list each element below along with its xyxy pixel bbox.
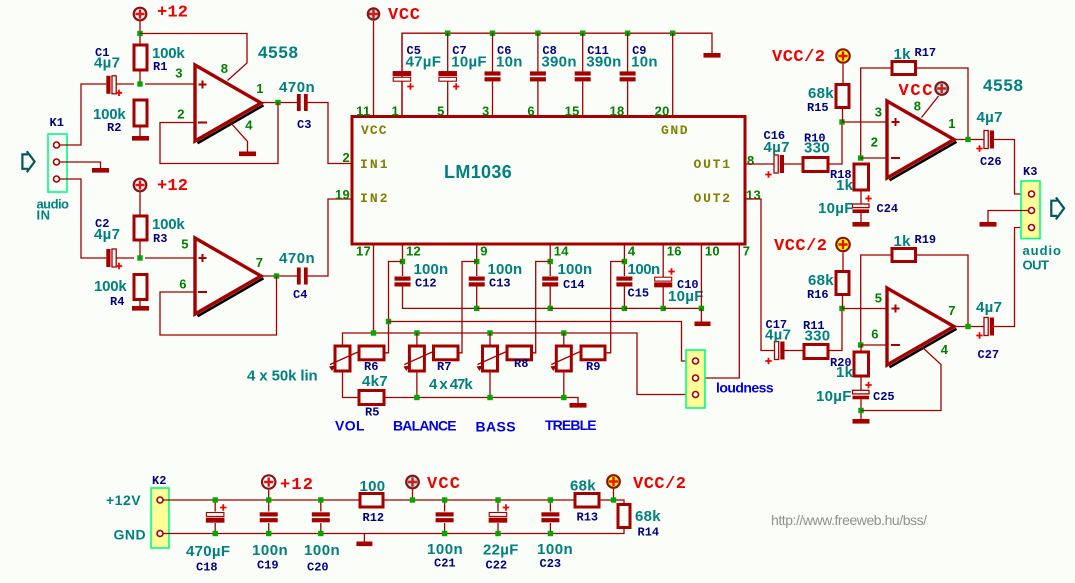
wire pin9 to R7	[458, 262, 477, 353]
svg-text:C26: C26	[980, 155, 1002, 169]
wire C8 to IC	[537, 81, 539, 116]
svg-text:470n: 470n	[279, 79, 315, 96]
svg-text:C24: C24	[877, 202, 899, 216]
wire C22 bottom	[497, 523, 499, 534]
wire R11 to +input node ch2	[828, 309, 842, 351]
svg-text:100n: 100n	[252, 542, 288, 559]
wire bus to C8	[537, 33, 539, 71]
capacitor C13	[469, 277, 485, 287]
label audio IN	[37, 197, 70, 223]
IC U2 LM1036 body	[352, 117, 745, 245]
wire rail1 C10-pin10	[663, 307, 701, 309]
node junction C20 rail bottom	[318, 531, 323, 536]
node junction out U3B	[965, 324, 970, 329]
wire C19 top	[268, 500, 270, 512]
wire top rail R13-R14	[599, 500, 624, 505]
label C22 plus	[503, 504, 509, 510]
svg-text:6: 6	[179, 277, 187, 292]
wire IC pin13 OUT2 to C17	[745, 199, 775, 351]
wire C1 to node	[116, 83, 134, 85]
wire C2 to node	[116, 257, 134, 259]
capacitor C12	[395, 277, 411, 287]
svg-text:4µ7: 4µ7	[94, 226, 120, 243]
wire IC pin14 branch	[549, 244, 551, 276]
wire K1-3 to C2	[60, 179, 107, 258]
resistor R4	[134, 275, 147, 300]
svg-text:10µF: 10µF	[816, 388, 852, 405]
node junction top bus	[445, 31, 450, 36]
wire R2 to ground	[139, 126, 141, 136]
power VCC/2 channel2	[836, 238, 849, 251]
op-amp U1B	[195, 238, 264, 316]
svg-text:C20: C20	[307, 561, 329, 575]
wire +12 stub bottom	[268, 490, 270, 500]
node junction C13 rail1	[474, 306, 479, 311]
svg-text:47µF: 47µF	[406, 54, 442, 71]
wire rail ground stub	[363, 534, 365, 542]
svg-text:BALANCE: BALANCE	[393, 418, 457, 434]
capacitor C5	[393, 72, 411, 82]
svg-text:7: 7	[743, 244, 751, 259]
svg-text:R12: R12	[363, 511, 385, 525]
svg-text:R3: R3	[153, 232, 167, 246]
wire bus to C7	[447, 33, 449, 71]
svg-text:VCC/2: VCC/2	[772, 48, 825, 67]
wire rail2 to loudness top	[389, 322, 692, 362]
svg-text:+12V: +12V	[106, 492, 141, 508]
svg-text:IN1: IN1	[360, 157, 388, 172]
wire C4 to IC pin19	[308, 199, 353, 276]
svg-text:5: 5	[181, 237, 189, 252]
node junction C1/R1/R2/opamp	[137, 81, 142, 86]
node junction pot rail	[371, 330, 376, 335]
wire C23 bottom	[549, 523, 551, 534]
svg-text:470n: 470n	[279, 250, 315, 267]
node junction pot rail	[561, 330, 566, 335]
capacitor C6	[485, 71, 501, 81]
svg-text:19: 19	[335, 187, 350, 202]
capacitor C11	[575, 71, 591, 81]
svg-text:4: 4	[628, 244, 636, 259]
opamp U1B minus sign	[198, 291, 207, 293]
capacitor C22	[489, 513, 507, 523]
wire R10 to +input node	[828, 122, 842, 164]
ground below C24	[853, 222, 870, 227]
wire IC pin10 to rail1	[700, 244, 702, 308]
svg-text:4k7: 4k7	[362, 373, 388, 390]
node junction C20 rail top	[318, 497, 323, 502]
wire U3B output to C27	[954, 326, 984, 328]
svg-text:4: 4	[941, 342, 949, 357]
opamp U1A minus sign	[198, 122, 207, 124]
node junction balance bottom	[414, 395, 419, 400]
svg-text:3: 3	[875, 105, 883, 120]
svg-text:TREBLE: TREBLE	[545, 417, 597, 433]
svg-text:VCC: VCC	[427, 475, 460, 494]
wire BASS pot top	[489, 333, 491, 346]
svg-text:11: 11	[356, 104, 370, 119]
capacitor C3	[297, 94, 308, 111]
capacitor C14	[542, 277, 558, 287]
wire K1-2 to ground	[60, 162, 101, 168]
wire node to opamp+	[145, 83, 195, 85]
svg-text:100n: 100n	[304, 542, 340, 559]
capacitor C23	[541, 512, 559, 522]
node junction rail2 loudness	[386, 319, 391, 324]
ground pin10	[695, 322, 711, 327]
svg-text:100n: 100n	[488, 261, 523, 278]
node junction C15 rail1	[622, 306, 627, 311]
svg-text:10: 10	[705, 244, 720, 259]
connector K3	[1021, 181, 1040, 239]
svg-text:100n: 100n	[537, 541, 573, 558]
svg-text:VCC: VCC	[361, 123, 387, 138]
wire pot top rail	[343, 333, 692, 395]
power +12 bottom	[262, 475, 275, 488]
wire rail1 C15-C10	[624, 307, 663, 309]
label C17 plus	[765, 358, 771, 364]
wire C27 to K3-3	[994, 228, 1029, 327]
opamp U1B plus sign	[199, 254, 207, 262]
wire C5 to IC	[401, 81, 403, 116]
wire C20 bottom	[320, 523, 322, 534]
opamp U3B plus sign	[892, 305, 900, 313]
ground below R4	[132, 306, 149, 311]
wire opamp pin4 to ground	[230, 122, 248, 152]
svg-text:VCC: VCC	[899, 82, 933, 101]
svg-text:GND: GND	[114, 527, 147, 543]
opamp U3B minus sign	[891, 344, 900, 346]
svg-text:10µF: 10µF	[451, 54, 487, 71]
node junction C19 rail top	[266, 497, 271, 502]
svg-text:K3: K3	[1023, 165, 1037, 179]
potentiometer R9 TREBLE	[550, 346, 580, 371]
capacitor C1	[106, 76, 116, 94]
pin K3-2	[1029, 208, 1035, 214]
svg-text:12: 12	[406, 244, 421, 259]
svg-text:4558: 4558	[258, 43, 299, 62]
wire +12 to R1	[139, 21, 141, 45]
wire IC pin7 to loudness	[700, 244, 740, 378]
label C26 plus	[976, 145, 982, 151]
power VCC bottom	[406, 476, 419, 489]
svg-text:C25: C25	[873, 390, 895, 404]
svg-text:4: 4	[245, 118, 253, 133]
ground opamp U1A pin4	[239, 152, 256, 157]
wire bus to C11	[582, 33, 584, 71]
capacitor C10	[655, 277, 672, 287]
svg-text:LM1036: LM1036	[444, 162, 513, 182]
node junction minus U3B	[858, 342, 863, 347]
resistor R13	[575, 494, 599, 508]
node junction pin14 branch	[548, 259, 553, 264]
svg-text:100k: 100k	[94, 278, 127, 295]
wire IC pin16 to C10	[662, 244, 664, 277]
svg-text:1k: 1k	[836, 177, 854, 194]
node junction C18 rail bottom	[213, 531, 218, 536]
resistor R5	[359, 391, 384, 405]
opamp U3A plus sign	[892, 118, 900, 126]
wire K3-2 to ground	[988, 211, 1029, 223]
resistor R10	[803, 158, 828, 172]
node junction pin9 branch	[474, 259, 479, 264]
wire R20 to C25	[860, 376, 862, 390]
resistor R16	[836, 272, 849, 295]
connector loudness	[686, 350, 705, 408]
svg-text:100n: 100n	[427, 541, 463, 558]
svg-text:4µ7: 4µ7	[94, 55, 120, 72]
svg-text:audio: audio	[1023, 243, 1062, 258]
wire IC pin4 branch	[623, 244, 625, 276]
pin K1-2	[54, 159, 60, 165]
svg-text:1k: 1k	[894, 233, 912, 250]
capacitor C15	[616, 277, 632, 287]
svg-text:10n: 10n	[496, 54, 523, 71]
wire IC pin8 OUT1 to C16	[745, 163, 774, 165]
node junction top bus	[535, 31, 540, 36]
node junction pot rail	[487, 330, 492, 335]
opamp U3A minus sign	[891, 157, 900, 159]
wire rail1 C14-C15	[550, 307, 624, 309]
wire GND bottom rail	[163, 528, 624, 534]
svg-text:1: 1	[256, 81, 264, 96]
node junction C23 rail bottom	[548, 531, 553, 536]
wire feedback right U3A	[916, 68, 969, 140]
wire opamp out to C3	[261, 102, 297, 104]
wire VOL pot bottom to R5	[343, 371, 360, 398]
node junction pin10 rail1	[699, 306, 704, 311]
svg-text:15: 15	[565, 104, 580, 119]
svg-text:R4: R4	[110, 295, 124, 309]
svg-text:R14: R14	[638, 526, 660, 540]
label C7 plus	[453, 83, 459, 89]
svg-text:14: 14	[554, 244, 570, 259]
svg-text:VCC: VCC	[388, 6, 420, 25]
capacitor C18	[206, 513, 224, 523]
wire TREBLE pot top	[563, 333, 565, 346]
power VCC/2 bottom	[607, 475, 620, 488]
wire C6 to IC	[492, 81, 494, 116]
wire opamp out to C4	[261, 275, 297, 277]
node junction treble bottom	[561, 395, 566, 400]
svg-text:R5: R5	[365, 406, 379, 420]
wire pin20 to bus	[672, 33, 674, 116]
resistor R14	[618, 505, 630, 528]
wire C18 top	[214, 500, 216, 512]
wire C10 to rail1	[662, 287, 664, 308]
svg-text:C18: C18	[196, 561, 218, 575]
svg-text:VCC/2: VCC/2	[633, 475, 686, 494]
wire C12 to rail1	[403, 287, 477, 309]
svg-text:C21: C21	[434, 557, 456, 571]
wire R15 to node	[842, 108, 844, 123]
capacitor C9	[620, 71, 636, 81]
arrow audio out	[1051, 197, 1064, 219]
svg-text:68k: 68k	[635, 508, 661, 525]
wire +12 top rail	[163, 499, 360, 501]
label C16 plus	[765, 171, 771, 177]
connector K1	[48, 134, 67, 192]
capacitor C2	[106, 249, 116, 267]
pin K1-1	[54, 142, 60, 148]
svg-text:R15: R15	[807, 101, 829, 115]
wire C20 top	[320, 500, 322, 512]
wire TREBLE pot bottom	[563, 371, 565, 398]
wire feedback right U3B	[916, 255, 969, 327]
wire bus to C5	[401, 33, 403, 71]
svg-text:R8: R8	[514, 357, 528, 371]
svg-text:OUT1: OUT1	[694, 157, 731, 172]
resistor R11	[804, 345, 828, 359]
svg-text:4µ7: 4µ7	[976, 299, 1002, 316]
svg-text:+12: +12	[157, 4, 188, 23]
wire C14 to rail1	[549, 287, 551, 309]
resistor R3	[134, 216, 147, 240]
svg-text:68k: 68k	[570, 478, 596, 495]
opamp U1A plus sign	[199, 81, 207, 89]
wire C13 to rail1	[476, 287, 478, 309]
wire R4 to ground	[139, 300, 141, 307]
wire pin14 to R8	[532, 262, 551, 353]
svg-text:390n: 390n	[541, 54, 576, 71]
svg-text:GND: GND	[661, 123, 688, 138]
node junction C25/pin4	[858, 408, 863, 413]
svg-text:R2: R2	[107, 121, 121, 135]
node junction top bus	[625, 31, 630, 36]
resistor R17 feedback	[892, 62, 916, 75]
node junction C21 rail bottom	[442, 531, 447, 536]
power +12 channel2	[134, 179, 147, 192]
wire K1-1 to C1	[60, 84, 107, 145]
capacitor C7	[439, 72, 457, 82]
wire feedback left U3B	[861, 255, 892, 345]
wire VCC/2 stub bottom	[613, 489, 615, 500]
svg-text:13: 13	[746, 188, 761, 203]
svg-text:4 x 50k lin: 4 x 50k lin	[247, 368, 318, 385]
wire C22 top	[497, 500, 499, 512]
svg-text:loudness: loudness	[716, 380, 774, 396]
node junction C18 rail top	[213, 497, 218, 502]
capacitor C27	[984, 318, 994, 336]
svg-text:1k: 1k	[836, 364, 854, 381]
wire VCC to opamp U3A	[922, 96, 939, 118]
node junction pot rail	[414, 330, 419, 335]
svg-text:R7: R7	[437, 360, 451, 374]
svg-text:100n: 100n	[414, 261, 449, 278]
svg-text:C23: C23	[540, 557, 562, 571]
wire feedback U1A	[160, 103, 278, 164]
label C2 plus	[116, 263, 122, 269]
svg-text:470µF: 470µF	[186, 543, 230, 560]
label audio OUT	[1023, 243, 1062, 273]
svg-text:R13: R13	[577, 511, 599, 525]
wire C24 to ground	[860, 213, 862, 222]
svg-text:OUT: OUT	[1023, 258, 1050, 273]
pin loudness-1	[693, 358, 699, 364]
capacitor C17	[775, 342, 785, 360]
svg-text:R19: R19	[915, 233, 937, 247]
svg-text:C22: C22	[486, 559, 508, 573]
label C24 plus	[865, 195, 871, 201]
wire VCC/2 to R15	[842, 64, 844, 85]
resistor R19 feedback	[892, 249, 916, 262]
capacitor C25	[853, 390, 870, 399]
capacitor C26	[984, 131, 994, 149]
label C5 plus	[407, 83, 413, 89]
node junction C19 rail bottom	[266, 531, 271, 536]
wire IC pin9 branch	[476, 244, 478, 276]
potentiometer R8 BASS	[477, 346, 507, 371]
wire VCC stub bottom	[412, 489, 414, 500]
svg-text:C27: C27	[978, 348, 1000, 362]
svg-text:3: 3	[175, 66, 183, 81]
node junction C23 rail top	[548, 497, 553, 502]
wire C7 to IC	[447, 81, 449, 116]
pin loudness-2	[693, 375, 699, 381]
wire top bus	[402, 33, 712, 116]
ground below R2	[132, 136, 149, 141]
capacitor C4	[297, 268, 308, 285]
svg-text:OUT2: OUT2	[694, 191, 731, 206]
wire +input ch1 right	[842, 121, 887, 123]
node junction VCC rail	[410, 497, 415, 502]
resistor R6	[359, 346, 384, 360]
svg-text:5: 5	[875, 291, 883, 306]
capacitor C21	[436, 512, 454, 522]
svg-text:390n: 390n	[586, 54, 621, 71]
svg-text:+12: +12	[157, 177, 188, 196]
label C1 plus	[116, 90, 122, 96]
svg-text:8: 8	[221, 61, 229, 76]
wire C9 to IC	[627, 81, 629, 116]
label C10 plus	[668, 268, 674, 274]
svg-text:17: 17	[356, 244, 371, 259]
wire C17 to R11	[785, 350, 805, 352]
capacitor C19	[260, 512, 278, 522]
svg-text:R9: R9	[586, 360, 600, 374]
wire IC pin17 to pot rail	[373, 244, 375, 333]
pin K2-2	[157, 531, 163, 537]
wire C21 top	[444, 500, 446, 512]
svg-text:4 x 47k: 4 x 47k	[429, 376, 473, 393]
svg-text:2: 2	[342, 150, 350, 165]
svg-text:K2: K2	[152, 474, 166, 488]
node junction minus U3A	[858, 155, 863, 160]
op-amp U1A	[195, 65, 264, 143]
svg-text:6: 6	[871, 327, 879, 342]
svg-text:4558: 4558	[983, 76, 1024, 95]
node junction C14 rail1	[548, 306, 553, 311]
svg-text:6: 6	[527, 104, 535, 119]
label C18 plus	[220, 504, 226, 510]
svg-text:100: 100	[360, 478, 386, 495]
wire C19 bottom	[268, 523, 270, 534]
svg-text:4µ7: 4µ7	[764, 139, 790, 156]
wire bus to C9	[627, 33, 629, 71]
ground below C25	[853, 419, 870, 424]
svg-text:9: 9	[480, 244, 488, 259]
wire C16 to R10	[784, 163, 803, 165]
svg-text:IN: IN	[37, 208, 51, 223]
svg-text:2: 2	[177, 107, 185, 122]
wire node to opamp+ ch2	[145, 257, 195, 259]
resistor R18	[854, 164, 869, 190]
svg-text:22µF: 22µF	[483, 542, 519, 559]
svg-text:100n: 100n	[558, 261, 593, 278]
node junction pin4 branch	[622, 259, 627, 264]
wire rail1 C13-C14	[477, 307, 551, 309]
svg-text:C19: C19	[257, 559, 279, 573]
